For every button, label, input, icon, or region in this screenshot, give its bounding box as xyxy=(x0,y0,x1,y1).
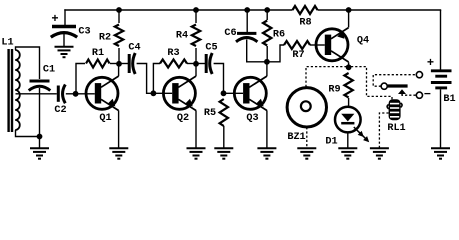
resistor R8 xyxy=(293,6,318,14)
node rail/R2 xyxy=(116,7,122,13)
wire C5 to Q3 base xyxy=(214,64,224,94)
node C5/R5/Q3 base xyxy=(221,90,227,96)
wire node to R7 xyxy=(267,45,284,62)
svg-text:C4: C4 xyxy=(128,43,140,54)
label R5 xyxy=(204,108,216,119)
capacitor C4 xyxy=(129,53,135,74)
wire R6 to node xyxy=(266,46,268,62)
capacitor C5 xyxy=(206,53,212,74)
wire R2 to node xyxy=(118,48,120,64)
ground D1 xyxy=(338,148,357,158)
resistor R3 xyxy=(160,60,187,68)
resistor R7 xyxy=(284,41,310,49)
label R1 xyxy=(92,48,104,59)
capacitor C3 (electrolytic) xyxy=(51,27,77,38)
node R4/R3/C5/Q2 xyxy=(193,61,199,67)
svg-text:R4: R4 xyxy=(176,31,188,42)
wire R3 to node xyxy=(187,63,196,65)
wire Q3 base xyxy=(224,92,244,94)
ground Q1 xyxy=(109,148,128,158)
label R9 xyxy=(328,85,340,96)
wire node to C4 xyxy=(119,63,128,65)
wire R5 to ground xyxy=(223,126,225,148)
transistor Q3 xyxy=(234,76,267,110)
svg-text:Q3: Q3 xyxy=(246,113,258,124)
wire top rail left xyxy=(64,9,292,11)
transistor Q4 xyxy=(316,28,349,62)
diode D1 (LED) xyxy=(335,107,361,133)
relay arm arrow xyxy=(398,89,406,94)
capacitor C6 xyxy=(236,33,257,41)
wire L1 bottom xyxy=(16,130,40,137)
label C4 xyxy=(128,43,140,54)
svg-text:C5: C5 xyxy=(205,43,217,54)
resistor R1 xyxy=(86,60,110,68)
relay contact arm xyxy=(388,84,408,87)
label C3 xyxy=(78,27,90,38)
svg-text:Q2: Q2 xyxy=(177,113,189,124)
ground B1 xyxy=(431,148,450,158)
wire junction to ground xyxy=(39,137,41,149)
wire RL1 to ground (dashed) xyxy=(379,113,388,148)
wire C6 to node xyxy=(247,40,267,62)
wire Q4 bottom xyxy=(348,62,350,68)
wire B1 to ground xyxy=(440,89,442,148)
svg-text:R2: R2 xyxy=(99,33,111,44)
wire rail to C6 xyxy=(246,10,248,32)
label Q3 xyxy=(246,113,258,124)
resistor R9 xyxy=(344,73,352,98)
capacitor C2 xyxy=(58,85,65,104)
wire R1 to node xyxy=(110,63,119,65)
svg-text:R5: R5 xyxy=(204,108,216,119)
wire C4 to Q2 base xyxy=(137,64,154,94)
wire R3 left drop xyxy=(153,64,160,94)
wire common to NC (dashed) xyxy=(373,75,416,87)
svg-text:L1: L1 xyxy=(1,38,13,49)
wire top rail right xyxy=(318,9,442,11)
wire D1 to ground xyxy=(347,132,349,148)
capacitor C1 xyxy=(29,81,51,91)
wire Q3 emitter xyxy=(266,110,268,148)
svg-text:D1: D1 xyxy=(325,137,337,148)
label Q1 xyxy=(99,113,111,124)
node rail/R6 xyxy=(264,7,270,13)
wire rail down to battery xyxy=(440,10,442,70)
svg-text:B1: B1 xyxy=(443,94,455,105)
label RL1 xyxy=(387,123,405,134)
ground R5 xyxy=(214,148,233,158)
svg-text:Q4: Q4 xyxy=(357,36,369,47)
svg-text:C6: C6 xyxy=(224,28,236,39)
node rail/Q4 xyxy=(346,7,352,13)
node C2/R1/Q1 base xyxy=(73,91,79,97)
wire arrow to NO (dashed) xyxy=(402,94,416,95)
label Q2 xyxy=(177,113,189,124)
wire Q2 base xyxy=(153,92,172,94)
svg-text:+: + xyxy=(51,12,58,26)
svg-text:R3: R3 xyxy=(167,48,179,59)
ground BZ1 xyxy=(297,148,316,158)
svg-text:−: − xyxy=(424,88,431,102)
wire Q1 collector xyxy=(118,64,120,76)
buzzer BZ1 xyxy=(287,88,326,127)
wire Q2 collector xyxy=(195,64,197,76)
svg-text:+: + xyxy=(427,56,434,70)
svg-text:R8: R8 xyxy=(299,18,311,29)
wire Q4 top xyxy=(348,10,350,27)
svg-text:R9: R9 xyxy=(328,85,340,96)
label R3 xyxy=(167,48,179,59)
node R6/C6/R7/Q3 xyxy=(264,59,270,65)
wire Q2 emitter xyxy=(195,110,197,148)
relay coil RL1 xyxy=(387,99,402,120)
label R6 xyxy=(273,30,285,41)
wire C3 to ground xyxy=(63,33,65,47)
relay contact NC xyxy=(416,72,422,78)
ground Q2 xyxy=(187,148,206,158)
battery B1 xyxy=(431,71,452,88)
label C5 xyxy=(205,43,217,54)
node rail/C6 xyxy=(244,7,250,13)
svg-text:RL1: RL1 xyxy=(387,123,405,134)
label R8 xyxy=(299,18,311,29)
label R4 xyxy=(176,31,188,42)
svg-text:R7: R7 xyxy=(292,50,304,61)
svg-text:R1: R1 xyxy=(92,48,104,59)
ground L1/C1 xyxy=(30,148,49,158)
label C2 xyxy=(54,105,66,116)
svg-text:R6: R6 xyxy=(273,30,285,41)
wire BZ1 to ground (dashed) xyxy=(306,127,308,148)
inductor L1 (antenna coil with core) xyxy=(7,49,13,132)
wire R4 to node xyxy=(195,48,197,64)
label R7 xyxy=(292,50,304,61)
label C6 xyxy=(224,28,236,39)
resistor R6 xyxy=(263,21,271,46)
resistor R5 xyxy=(220,99,228,126)
relay contact common xyxy=(381,83,387,89)
node L1/C1 junction xyxy=(37,134,43,140)
wire rail to R2 xyxy=(118,10,120,23)
svg-text:C2: C2 xyxy=(54,105,66,116)
resistor R4 xyxy=(192,25,200,47)
wire C1 to junction xyxy=(39,88,41,137)
wire Q1 emitter xyxy=(118,110,120,148)
node Q4/R9/BZ1/RL1 xyxy=(346,64,352,70)
plus sign B1 xyxy=(427,56,434,70)
wire node to C5 xyxy=(196,63,205,65)
resistor R2 xyxy=(115,25,123,47)
label D1 xyxy=(325,137,337,148)
svg-text:C1: C1 xyxy=(43,65,55,76)
transistor Q2 xyxy=(163,76,196,110)
label B1 xyxy=(443,94,455,105)
wire R1 left drop xyxy=(76,64,85,94)
label L1 xyxy=(1,38,13,49)
wire L1 tap to C2 xyxy=(16,93,57,95)
ground Q3 xyxy=(257,148,276,158)
wire rail to R6 xyxy=(266,10,268,20)
wire C2 to node xyxy=(66,93,76,95)
wire rail to R4 xyxy=(195,10,197,23)
ground C3 xyxy=(55,47,74,57)
label BZ1 xyxy=(287,132,305,143)
wire node to Q1 base xyxy=(76,93,95,95)
ground RL1 xyxy=(370,148,389,158)
wire R9 to D1 xyxy=(348,98,350,107)
wire C3 to rail xyxy=(64,9,66,25)
svg-text:C3: C3 xyxy=(78,27,90,38)
wire R7 to Q4 base xyxy=(310,44,325,46)
node R1/R2/C4/Q1 xyxy=(116,61,122,67)
minus sign B1 xyxy=(424,88,431,102)
label R2 xyxy=(99,33,111,44)
wire Q4 node to RL1 (dashed) xyxy=(351,67,392,100)
inductor L1 winding xyxy=(15,50,20,130)
plus sign C3 xyxy=(51,12,58,26)
node R3/Q2 base xyxy=(151,90,157,96)
svg-text:Q1: Q1 xyxy=(99,113,111,124)
label Q4 xyxy=(357,36,369,47)
wire BZ1 to Q4 node (dashed) xyxy=(306,67,349,87)
wire L1 top to C1 xyxy=(16,47,40,79)
relay contact NO xyxy=(416,92,422,98)
label C1 xyxy=(43,65,55,76)
wire Q3 collector xyxy=(266,62,268,76)
LED arrows D1 xyxy=(354,127,369,142)
svg-text:BZ1: BZ1 xyxy=(287,132,305,143)
node rail/R4 xyxy=(193,7,199,13)
transistor Q1 xyxy=(86,76,119,110)
